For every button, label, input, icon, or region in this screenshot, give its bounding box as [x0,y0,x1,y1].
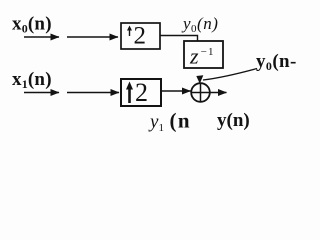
wire curved from y0(n-1) into adder top [203,69,257,81]
wire input arrow x1 segment 2 into upsampler U2 [67,92,119,94]
wire output arrow y(n) [210,92,227,94]
svg-text:2: 2 [134,23,147,50]
svg-text:y(n): y(n) [217,110,250,131]
svg-text:y0(n-: y0(n- [256,51,297,73]
svg-text:x1(n): x1(n) [12,69,52,91]
adder S1 (circle with plus) [191,83,210,102]
upsampler block U2 (up-arrow 2, bottom branch) [121,78,161,107]
svg-text:y1(n: y1(n [148,109,191,135]
wire from U1 to delay Z1 [160,36,198,42]
wire input arrow x0 segment 1 [24,36,59,38]
svg-text:2: 2 [135,78,148,107]
wire input arrow x0 segment 2 into upsampler U1 [67,36,118,38]
svg-text:y0(n): y0(n) [181,14,218,35]
upsampler block U1 (up-arrow 2, top branch) [121,23,160,50]
delay block Z1 (z^-1) [184,41,223,69]
wire from U2 to adder [161,90,191,92]
svg-text:x0(n): x0(n) [12,14,52,36]
wire input arrow x1 segment 1 [24,92,59,94]
